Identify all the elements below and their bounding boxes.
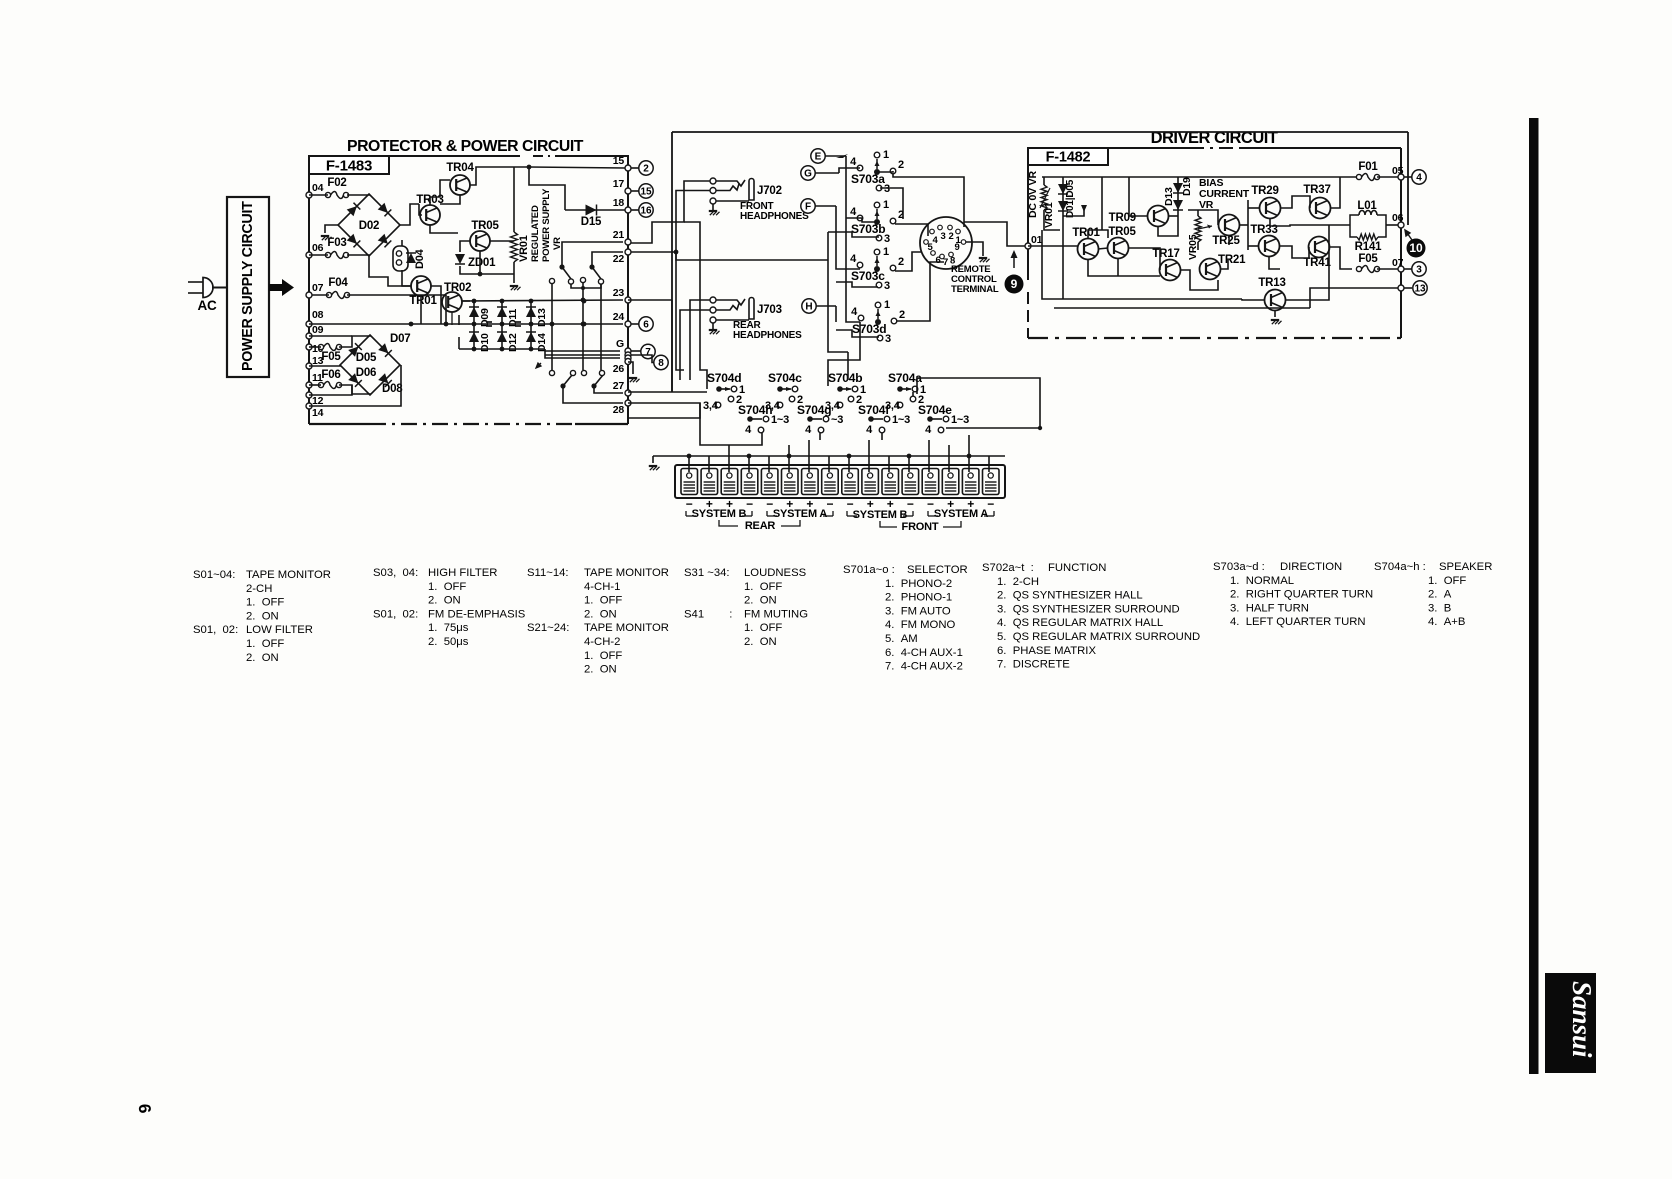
svg-text:21: 21 xyxy=(613,229,625,241)
svg-text:E: E xyxy=(815,151,822,162)
connector 15 xyxy=(631,190,639,192)
remote control terminal xyxy=(920,217,972,269)
transistor TR03 xyxy=(420,205,440,225)
svg-text:SYSTEM A: SYSTEM A xyxy=(773,508,827,520)
svg-text:S41 :: S41 : xyxy=(684,608,732,620)
svg-text:S704h: S704h xyxy=(738,403,772,417)
connector 7 xyxy=(631,350,641,352)
diode D10 xyxy=(473,324,475,349)
svg-text:2. A: 2. A xyxy=(1428,589,1452,601)
svg-text:D05: D05 xyxy=(356,352,377,364)
ground J703 xyxy=(712,323,714,329)
svg-text:S703c: S703c xyxy=(851,269,885,283)
switch S24 lever xyxy=(591,383,596,388)
svg-text:POWER SUPPLY CIRCUIT: POWER SUPPLY CIRCUIT xyxy=(240,201,256,371)
wires from jacks to S704 xyxy=(684,222,707,389)
svg-text:S702a~t :: S702a~t : xyxy=(982,562,1034,574)
svg-text:S704g: S704g xyxy=(797,403,831,417)
svg-text:28: 28 xyxy=(613,404,625,416)
svg-text:1. OFF: 1. OFF xyxy=(246,597,284,609)
svg-text:F: F xyxy=(805,201,811,212)
svg-text:TR09: TR09 xyxy=(1109,212,1136,224)
svg-text:6: 6 xyxy=(935,255,940,266)
svg-text:2: 2 xyxy=(898,256,904,268)
ground TR13 xyxy=(1271,319,1279,321)
svg-text:1. OFF: 1. OFF xyxy=(744,622,782,634)
transistor TR33 xyxy=(1259,236,1280,257)
terminal 14 xyxy=(306,403,312,409)
svg-text:1. OFF: 1. OFF xyxy=(246,638,284,650)
svg-text:SPEAKER: SPEAKER xyxy=(1439,561,1492,573)
svg-text:2-CH: 2-CH xyxy=(246,583,272,595)
terminal 27 right xyxy=(625,390,631,396)
array tie marks xyxy=(486,321,492,323)
svg-text:S21~24:: S21~24: xyxy=(527,622,569,634)
ground bus above terminal strip xyxy=(653,455,1005,457)
svg-text:LOUDNESS: LOUDNESS xyxy=(744,567,807,579)
svg-text:15: 15 xyxy=(613,155,625,167)
svg-text:6. PHASE MATRIX: 6. PHASE MATRIX xyxy=(997,645,1096,657)
svg-text:3: 3 xyxy=(1416,264,1422,275)
jack J702 front headphones xyxy=(710,178,716,184)
terminal 17 right xyxy=(625,188,631,194)
diode D04 xyxy=(406,253,416,263)
zener ZD01 xyxy=(455,254,465,264)
diode D11 xyxy=(501,301,503,324)
transistor TR05 driver xyxy=(1108,238,1129,259)
svg-text:9: 9 xyxy=(954,242,959,253)
svg-text:2: 2 xyxy=(898,159,904,171)
svg-text:TAPE MONITOR: TAPE MONITOR xyxy=(584,567,669,579)
array left frame xyxy=(458,315,460,325)
wire 23 to right xyxy=(628,299,672,301)
svg-text:08: 08 xyxy=(312,309,324,321)
wire D05 to ground arrow xyxy=(1063,206,1084,216)
svg-text:6: 6 xyxy=(135,1103,155,1114)
F-1482 label box xyxy=(1028,148,1108,165)
vr05 frame xyxy=(1197,210,1199,216)
svg-text:SYSTEM B: SYSTEM B xyxy=(692,508,747,520)
svg-text:TAPE MONITOR: TAPE MONITOR xyxy=(584,622,669,634)
svg-text:D02: D02 xyxy=(359,220,380,232)
transistor TR29 xyxy=(1260,198,1281,219)
terminal 24 right xyxy=(625,321,631,327)
G rails xyxy=(545,350,620,352)
svg-text:S01, 02:: S01, 02: xyxy=(373,608,418,620)
svg-text:2: 2 xyxy=(643,163,649,174)
svg-text:~3: ~3 xyxy=(831,414,843,426)
svg-text:2. RIGHT QUARTER TURN: 2. RIGHT QUARTER TURN xyxy=(1230,589,1373,601)
svg-text:POWER SUPPLY: POWER SUPPLY xyxy=(541,188,552,262)
connector 16 xyxy=(631,209,639,211)
svg-text:R141: R141 xyxy=(1355,241,1382,253)
fuse F02 xyxy=(325,192,330,197)
svg-text:2. ON: 2. ON xyxy=(584,664,617,676)
wires S703d down to S704b xyxy=(828,322,860,386)
terminal 23 right xyxy=(625,297,631,303)
svg-text:TR01: TR01 xyxy=(1072,227,1100,239)
svg-text:1: 1 xyxy=(883,199,889,211)
svg-text:3. HALF TURN: 3. HALF TURN xyxy=(1230,602,1309,614)
terminal 04 xyxy=(306,192,312,198)
svg-text:2. ON: 2. ON xyxy=(744,595,777,607)
ground at D02 xyxy=(321,235,329,237)
terminal 15 right xyxy=(625,165,631,171)
svg-text:3: 3 xyxy=(884,280,890,292)
svg-text:TR04: TR04 xyxy=(446,162,474,174)
wires S703 to remote xyxy=(893,174,964,227)
svg-text:15: 15 xyxy=(640,186,652,197)
svg-text:S704e: S704e xyxy=(918,403,952,417)
svg-text:8: 8 xyxy=(658,358,664,369)
svg-text:24: 24 xyxy=(613,311,625,323)
F-1483 label box xyxy=(309,156,389,174)
terminal 05 driver xyxy=(1398,174,1404,180)
bridge rectifier D05 D06 D07 D08 xyxy=(340,335,400,395)
connector F xyxy=(801,199,815,213)
svg-text:S703a~d :: S703a~d : xyxy=(1213,561,1265,573)
switch bar upper circles xyxy=(549,278,554,283)
svg-text:LOW FILTER: LOW FILTER xyxy=(246,624,313,636)
svg-text:09: 09 xyxy=(312,324,324,336)
svg-text:2: 2 xyxy=(899,309,905,321)
fuse F05 driver xyxy=(1356,266,1361,271)
connector 8 xyxy=(631,355,654,363)
connector 6 xyxy=(631,323,639,325)
svg-text:SYSTEM B: SYSTEM B xyxy=(853,509,908,521)
svg-text:F05: F05 xyxy=(321,351,341,363)
svg-text:18: 18 xyxy=(613,197,625,209)
svg-text:SYSTEM A: SYSTEM A xyxy=(934,508,988,520)
svg-text:J702: J702 xyxy=(757,185,782,197)
svg-text:Sansui: Sansui xyxy=(1567,981,1597,1058)
switch bar lower circles xyxy=(549,370,554,375)
svg-text:FRONT: FRONT xyxy=(902,521,939,533)
wire D02 left corner to ground xyxy=(325,225,338,233)
svg-text:D15: D15 xyxy=(581,216,602,228)
switch S703b xyxy=(874,202,880,208)
svg-text:1. OFF: 1. OFF xyxy=(584,595,622,607)
svg-text:F-1482: F-1482 xyxy=(1046,150,1091,166)
svg-text:H: H xyxy=(805,301,812,312)
terminal 01 F-1482 xyxy=(1025,243,1031,249)
wire D02 right corner xyxy=(400,204,419,225)
terminal 18 right xyxy=(625,207,631,213)
svg-text:3. QS SYNTHESIZER SURROUND: 3. QS SYNTHESIZER SURROUND xyxy=(997,603,1180,615)
svg-text:FUNCTION: FUNCTION xyxy=(1048,562,1106,574)
wire F04 drop xyxy=(445,295,447,324)
wire 13 to bridge left xyxy=(309,365,340,366)
terminal 07 xyxy=(306,292,312,298)
wire D02 bottom to TR01 xyxy=(369,256,402,286)
junction dots rails xyxy=(581,298,586,303)
svg-text:5. AM: 5. AM xyxy=(885,633,918,645)
connector 4 xyxy=(1404,176,1412,178)
wires S704 to strip xyxy=(688,456,690,472)
wire F04 to rail xyxy=(312,294,329,296)
svg-text:1~3: 1~3 xyxy=(892,414,910,426)
svg-text:D13: D13 xyxy=(1163,187,1175,206)
connector H xyxy=(802,299,816,313)
terminal 11 xyxy=(306,382,312,388)
svg-text:10: 10 xyxy=(1409,241,1423,255)
terminal 12 xyxy=(306,392,312,398)
svg-text:TR13: TR13 xyxy=(1258,277,1285,289)
wire bridge right corner down to 14 rail xyxy=(309,365,401,406)
power supply circuit block xyxy=(227,197,269,377)
svg-text:DIRECTION: DIRECTION xyxy=(1280,561,1342,573)
switch wires to terminals 21 22 xyxy=(562,242,623,267)
transistor TR09 xyxy=(1148,206,1169,227)
svg-text:FM DE-EMPHASIS: FM DE-EMPHASIS xyxy=(428,608,526,620)
switch tie upper xyxy=(571,284,601,288)
svg-text:1: 1 xyxy=(883,149,889,161)
svg-text:F04: F04 xyxy=(328,277,348,289)
remote terminal ground xyxy=(966,242,983,256)
connector G xyxy=(801,166,815,180)
svg-text:4. A+B: 4. A+B xyxy=(1428,616,1465,628)
transistor TR01 xyxy=(411,276,431,296)
switch wires lower to 27 28 xyxy=(594,386,623,393)
svg-text:17: 17 xyxy=(613,178,625,190)
svg-text:HEADPHONES: HEADPHONES xyxy=(733,330,802,341)
wires J703 left xyxy=(690,300,710,330)
svg-text:2. PHONO-1: 2. PHONO-1 xyxy=(885,592,952,604)
svg-text:2. ON: 2. ON xyxy=(744,636,777,648)
wires S703 buses xyxy=(846,156,860,322)
connector 2 xyxy=(631,167,639,169)
transistor TR13 xyxy=(1265,290,1286,311)
svg-text:S704f: S704f xyxy=(858,403,890,417)
svg-text:1. OFF: 1. OFF xyxy=(428,581,466,593)
svg-text:FM MUTING: FM MUTING xyxy=(744,608,808,620)
svg-text:2: 2 xyxy=(948,231,953,242)
wire F05 to bridge top xyxy=(309,346,321,348)
terminal G right xyxy=(625,348,631,354)
svg-text:S704a~h :: S704a~h : xyxy=(1374,561,1426,573)
wire TR01 drop xyxy=(420,296,422,324)
svg-text:TR01: TR01 xyxy=(409,295,437,307)
diode D15 xyxy=(565,209,625,211)
terminal 13 xyxy=(306,363,312,369)
bridge rectifier D02 xyxy=(338,194,400,256)
speaker terminal strip xyxy=(675,465,1005,498)
wires TR01 TR02 xyxy=(402,285,411,287)
svg-text:1. NORMAL: 1. NORMAL xyxy=(1230,575,1294,587)
svg-text:2. ON: 2. ON xyxy=(246,652,279,664)
svg-text:04: 04 xyxy=(312,182,324,194)
F-1483 board outline xyxy=(308,174,310,424)
svg-text:S31 ~34:: S31 ~34: xyxy=(684,567,730,579)
svg-text:6: 6 xyxy=(643,319,649,330)
svg-text:1. 2-CH: 1. 2-CH xyxy=(997,576,1039,588)
terminal 06 xyxy=(306,252,312,258)
transistor TR21 xyxy=(1200,259,1221,280)
jack J703 rear headphones xyxy=(710,297,716,303)
variable resistor VR05 xyxy=(1195,216,1201,242)
svg-text:4-CH-1: 4-CH-1 xyxy=(584,581,620,593)
svg-text:16: 16 xyxy=(640,205,652,216)
diode D01 xyxy=(1062,177,1064,216)
wires around TR03 TR04 xyxy=(419,204,422,215)
wire remote to F-1482 01 xyxy=(964,222,1025,246)
switch S22 lever xyxy=(589,264,594,269)
switch S703d xyxy=(875,302,881,308)
terminal 08 xyxy=(306,321,312,327)
wire bus S704 row xyxy=(672,391,707,393)
svg-text:F06: F06 xyxy=(321,369,340,381)
svg-text:1~3: 1~3 xyxy=(951,414,969,426)
svg-text:7. DISCRETE: 7. DISCRETE xyxy=(997,659,1070,671)
switch S23 lever xyxy=(560,383,565,388)
svg-text:4: 4 xyxy=(1416,172,1422,183)
svg-text:4. QS REGULAR MATRIX HALL: 4. QS REGULAR MATRIX HALL xyxy=(997,617,1163,629)
svg-text:7: 7 xyxy=(943,257,948,268)
AC plug xyxy=(203,278,213,298)
svg-text:22: 22 xyxy=(613,253,625,265)
svg-text:D19: D19 xyxy=(1181,177,1193,196)
svg-text:TERMINAL: TERMINAL xyxy=(951,284,999,295)
svg-text:J703: J703 xyxy=(757,304,782,316)
connector E xyxy=(811,149,825,163)
svg-text:S11~14:: S11~14: xyxy=(527,567,569,579)
svg-text:D07: D07 xyxy=(390,333,411,345)
fuse F05 xyxy=(318,344,323,349)
rail TR04 to right xyxy=(529,167,625,168)
svg-text:TR29: TR29 xyxy=(1251,185,1278,197)
svg-text:3: 3 xyxy=(885,333,891,345)
fuse F04 xyxy=(326,292,331,297)
svg-text:−: − xyxy=(907,497,914,511)
svg-text:6. 4-CH AUX-1: 6. 4-CH AUX-1 xyxy=(885,647,963,659)
wire 13 rail xyxy=(1310,288,1398,308)
svg-text:DC 0V VR: DC 0V VR xyxy=(1027,171,1039,218)
wire TR02 drop xyxy=(440,297,442,324)
transistor TR37 xyxy=(1310,198,1331,219)
svg-text:1. PHONO-2: 1. PHONO-2 xyxy=(885,578,952,590)
internal rails F-1482 xyxy=(1028,245,1078,247)
svg-text:3. B: 3. B xyxy=(1428,602,1451,614)
svg-text:27: 27 xyxy=(613,380,625,392)
svg-text:1~3: 1~3 xyxy=(771,414,789,426)
svg-text:3: 3 xyxy=(884,233,890,245)
array bottom rail xyxy=(459,348,545,350)
diode D14 xyxy=(530,324,532,349)
svg-text:F-1483: F-1483 xyxy=(326,158,372,175)
connector 3 xyxy=(1404,268,1412,270)
svg-text:HIGH FILTER: HIGH FILTER xyxy=(428,567,497,579)
svg-text:1. OFF: 1. OFF xyxy=(744,581,782,593)
inductor L01 R141 block xyxy=(1329,224,1350,226)
ground J702 xyxy=(712,204,714,210)
diodes D19 D13 driver xyxy=(1177,177,1179,226)
F-1482 board outline xyxy=(1027,164,1029,280)
transistor TR17 xyxy=(1160,260,1181,281)
connector 9 black xyxy=(1005,275,1024,294)
svg-text:1. OFF: 1. OFF xyxy=(1428,575,1466,587)
svg-text:G: G xyxy=(804,168,812,179)
svg-text:D01|D05: D01|D05 xyxy=(1065,179,1076,218)
svg-text:3: 3 xyxy=(884,183,890,195)
terminal 21 right xyxy=(625,239,631,245)
top rail F-1482 xyxy=(1042,176,1360,178)
svg-text:1. 75μs: 1. 75μs xyxy=(428,622,469,634)
wire D02 ac input bottom xyxy=(309,254,328,256)
svg-text:S701a~o :: S701a~o : xyxy=(843,564,895,576)
svg-text:TR25: TR25 xyxy=(1212,235,1240,247)
svg-text:2. QS SYNTHESIZER HALL: 2. QS SYNTHESIZER HALL xyxy=(997,590,1143,602)
terminal 07 driver xyxy=(1398,266,1404,272)
svg-text:G: G xyxy=(616,338,624,350)
svg-text:S703a: S703a xyxy=(851,172,885,186)
svg-text:07: 07 xyxy=(312,282,324,294)
svg-text:06: 06 xyxy=(312,242,324,254)
svg-text:4. FM MONO: 4. FM MONO xyxy=(885,619,956,631)
svg-text:PROTECTOR & POWER CIRCUIT: PROTECTOR & POWER CIRCUIT xyxy=(347,138,584,155)
svg-text:5. QS REGULAR MATRIX SURROUND: 5. QS REGULAR MATRIX SURROUND xyxy=(997,631,1200,643)
svg-text:TR17: TR17 xyxy=(1152,248,1179,260)
svg-text:26: 26 xyxy=(613,363,625,375)
svg-text:01: 01 xyxy=(1031,234,1043,246)
wire S704a 2 stub xyxy=(912,392,914,396)
svg-text:TR02: TR02 xyxy=(444,282,471,294)
connector 13 xyxy=(1404,287,1412,289)
svg-text:VR01: VR01 xyxy=(518,235,530,262)
switch S21 lever xyxy=(559,264,564,269)
svg-text:14: 14 xyxy=(312,407,324,419)
svg-text:2. ON: 2. ON xyxy=(428,595,461,607)
svg-text:HEADPHONES: HEADPHONES xyxy=(740,211,809,222)
svg-text:S01~04:: S01~04: xyxy=(193,569,235,581)
svg-text:SELECTOR: SELECTOR xyxy=(907,564,968,576)
terminal 28 right xyxy=(625,400,631,406)
svg-text:7: 7 xyxy=(645,347,651,358)
connector 10 black xyxy=(1407,239,1426,258)
ground VR01 xyxy=(510,285,518,287)
svg-text:ZD01: ZD01 xyxy=(468,257,496,269)
svg-text:S703b: S703b xyxy=(851,222,885,236)
svg-text:AC: AC xyxy=(197,298,217,313)
Sansui logo box xyxy=(1545,973,1596,1073)
svg-text:2. 50μs: 2. 50μs xyxy=(428,636,469,648)
svg-text:D06: D06 xyxy=(356,367,377,379)
svg-text:S03, 04:: S03, 04: xyxy=(373,567,418,579)
diode D13 xyxy=(530,301,532,324)
wire 27 to bus xyxy=(628,391,672,393)
svg-text:23: 23 xyxy=(613,287,625,299)
terminal 22 right xyxy=(625,249,631,255)
svg-text:13: 13 xyxy=(1414,283,1426,294)
svg-text:3: 3 xyxy=(940,231,945,242)
svg-text:9: 9 xyxy=(1011,277,1018,291)
svg-text:REGULATED: REGULATED xyxy=(530,205,541,262)
terminal 26 right xyxy=(625,359,631,365)
switch S703c xyxy=(874,249,880,255)
svg-text:S704d: S704d xyxy=(707,371,741,385)
terminal 10 xyxy=(306,344,312,350)
svg-text:D04: D04 xyxy=(414,248,426,269)
svg-text:S704c: S704c xyxy=(768,371,802,385)
svg-text:−: − xyxy=(826,497,833,511)
S704 2-contacts row1 xyxy=(728,396,734,402)
diode D05 driver xyxy=(1058,201,1068,211)
diode D09 xyxy=(473,301,475,324)
svg-text:2. ON: 2. ON xyxy=(584,608,617,620)
svg-text:1: 1 xyxy=(884,299,890,311)
svg-text:TAPE MONITOR: TAPE MONITOR xyxy=(246,569,331,581)
svg-text:4. LEFT QUARTER TURN: 4. LEFT QUARTER TURN xyxy=(1230,616,1366,628)
svg-text:1. OFF: 1. OFF xyxy=(584,650,622,662)
